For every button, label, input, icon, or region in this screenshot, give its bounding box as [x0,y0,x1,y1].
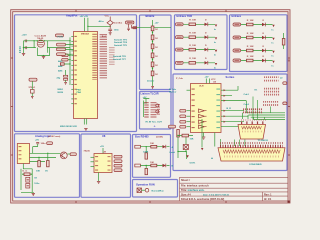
svg-text:binaire: binaire [147,81,155,83]
svg-text:OUT1: OUT1 [190,163,197,165]
svg-text:Switch1 TP3: Switch1 TP3 [114,39,128,42]
svg-text:B_Cde: B_Cde [169,89,177,91]
svg-text:100n: 100n [114,30,120,32]
svg-text:1K: 1K [155,47,158,49]
svg-text:10K: 10K [150,143,154,145]
svg-text:Id: 1/1: Id: 1/1 [264,198,272,201]
svg-text:+12V: +12V [22,34,28,36]
svg-text:D_in: D_in [23,170,28,172]
svg-text:Cde2: Cde2 [244,104,250,106]
svg-text:Entrees TOR: Entrees TOR [177,14,193,18]
svg-text:Liaison TLC/IR: Liaison TLC/IR [141,92,159,96]
svg-text:U8: U8 [102,134,106,138]
svg-text:AN4: AN4 [58,65,63,68]
svg-text:+5V: +5V [205,77,209,79]
svg-text:22p: 22p [57,78,61,80]
svg-text:Moteur: Moteur [169,91,176,94]
svg-text:100n: 100n [34,183,40,185]
svg-text:100n: 100n [41,143,47,145]
svg-text:78L05: 78L05 [37,38,44,40]
svg-text:Level: Level [170,152,176,154]
svg-text:ULN: ULN [199,86,204,88]
svg-text:TO RS232: TO RS232 [258,140,269,142]
svg-text:1K: 1K [155,74,158,76]
svg-text:Bus RS485: Bus RS485 [135,134,149,138]
svg-text:Switch5 TP7: Switch5 TP7 [113,58,127,61]
svg-text:(COM): (COM) [156,136,163,138]
svg-text:B_R: B_R [227,108,232,110]
svg-text:1K: 1K [34,178,37,180]
svg-text:AN5: AN5 [58,70,63,73]
svg-text:1K: 1K [155,65,158,67]
svg-text:10K: 10K [150,162,154,164]
svg-text:Switch4 TP6: Switch4 TP6 [113,55,127,58]
svg-text:1K: 1K [45,171,48,173]
svg-text:Cde1: Cde1 [244,94,250,96]
svg-text:(0-10V max): (0-10V max) [48,136,61,138]
svg-text:Switch2 TP4: Switch2 TP4 [114,41,128,44]
svg-text:MEGA8: MEGA8 [81,32,90,35]
svg-text:1K: 1K [155,38,158,40]
svg-text:Size: A4: Size: A4 [181,193,191,196]
svg-text:Rev: 1: Rev: 1 [264,193,272,196]
svg-text:Switch3 TP5: Switch3 TP5 [114,44,128,47]
svg-text:10K: 10K [36,171,40,173]
svg-text:P_Cde: P_Cde [176,78,184,80]
svg-text:1K: 1K [155,29,158,31]
svg-text:Sheet: /: Sheet: / [181,179,190,182]
svg-text:POT1: POT1 [58,36,64,38]
svg-text:IR_IN TLC_OUT: IR_IN TLC_OUT [146,121,163,123]
svg-text:+5V: +5V [100,146,104,148]
svg-text:Title: interface univ.: Title: interface univ. [181,189,205,192]
svg-text:AVcc: AVcc [99,20,105,23]
svg-text:+5V: +5V [155,23,159,25]
svg-text:Binaire: Binaire [146,14,155,18]
svg-text:VCC: VCC [105,15,110,17]
svg-text:CONN DB25: CONN DB25 [249,164,262,166]
svg-text:78L05: 78L05 [84,151,91,153]
svg-text:10K: 10K [190,139,194,141]
svg-text:120R: 120R [143,152,149,154]
svg-text:KiCad E.D.A. eeschema (2007-0: KiCad E.D.A. eeschema (2007-01-22) [181,198,224,201]
svg-text:Operation RUN: Operation RUN [136,182,155,186]
svg-text:MISO MOSI SCK: MISO MOSI SCK [60,126,77,128]
svg-text:MOSI: MOSI [58,92,64,94]
svg-text:File: interface_univ.sch: File: interface_univ.sch [181,185,209,188]
svg-text:Date: 5 feb 2007 17:08:31: Date: 5 feb 2007 17:08:31 [203,193,230,196]
svg-text:1K: 1K [155,56,158,58]
svg-text:InterExt: InterExt [114,22,122,25]
svg-text:Sorties: Sorties [226,75,235,79]
svg-text:+5V +5V: +5V +5V [80,16,89,18]
svg-text:Entrees: Entrees [232,14,242,18]
svg-text:Normal/Run: Normal/Run [152,191,165,193]
svg-text:+5V: +5V [143,97,147,99]
svg-text:+5V: +5V [35,140,39,142]
svg-text:AmpliPot: AmpliPot [66,14,78,18]
svg-text:AN3: AN3 [58,60,63,63]
